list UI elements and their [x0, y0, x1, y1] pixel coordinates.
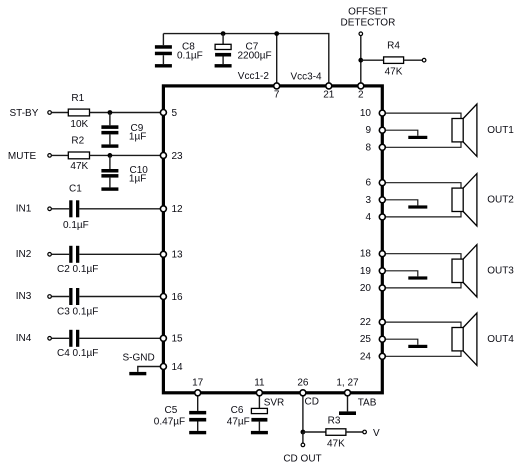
speaker OUT2 [452, 174, 477, 226]
svg-text:R2: R2 [71, 135, 84, 146]
svg-text:R3: R3 [328, 415, 341, 426]
svg-text:DETECTOR: DETECTOR [340, 17, 395, 28]
svg-text:OUT2: OUT2 [487, 195, 514, 206]
capacitor C4 [57, 330, 98, 359]
capacitor C7 [215, 34, 231, 65]
svg-text:24: 24 [360, 351, 372, 362]
capacitor C8 [155, 34, 172, 65]
pin 10 [360, 108, 385, 119]
svg-text:MUTE: MUTE [8, 151, 37, 162]
node IN1 input [16, 203, 52, 214]
wire OUT2 center pin to ground [385, 200, 417, 206]
wire C2 to pin [79, 253, 160, 255]
wire top supply bus [163, 34, 328, 85]
pin 6 [365, 178, 385, 189]
wire offset detector to pin 2 [360, 36, 362, 84]
wire pin to OUT3 speaker - [385, 283, 461, 288]
pin 21 [323, 83, 335, 101]
svg-text:11: 11 [254, 378, 265, 389]
pin 18 [360, 249, 385, 260]
svg-text:2: 2 [358, 90, 364, 101]
ground under C9 [101, 144, 118, 147]
svg-text:1µF: 1µF [129, 174, 146, 185]
node junction C9 [108, 110, 113, 115]
svg-text:22: 22 [360, 317, 372, 328]
pin 9 [365, 125, 385, 136]
svg-text:2200µF: 2200µF [238, 51, 272, 62]
svg-text:4: 4 [365, 212, 371, 223]
node OFFSET DETECTOR terminal [340, 6, 395, 35]
capacitor C2 [57, 246, 98, 275]
svg-text:TAB: TAB [358, 397, 377, 408]
label C7 value [238, 42, 272, 62]
pin 26 [297, 378, 309, 396]
pin 11 [254, 378, 265, 396]
svg-text:IN1: IN1 [16, 203, 32, 214]
svg-text:47µF: 47µF [227, 416, 250, 427]
node junction C10 [108, 153, 113, 158]
ground TAB [339, 411, 356, 415]
node V terminal [363, 428, 380, 439]
resistor R4 [361, 40, 422, 77]
pin 14 [160, 362, 183, 373]
svg-text:6: 6 [365, 178, 371, 189]
wire pin 1,27 to ground [347, 394, 349, 411]
wire IN1 to C1 [52, 208, 70, 210]
wire MUTE to R2 [52, 154, 69, 156]
ground under C5 [189, 431, 206, 434]
svg-text:8: 8 [365, 142, 371, 153]
pin 25 [360, 334, 385, 345]
wire C4 to pin [79, 337, 160, 339]
ground OUT3 [408, 276, 427, 279]
svg-text:OFFSET: OFFSET [348, 6, 387, 17]
svg-text:0.47µF: 0.47µF [154, 416, 185, 427]
svg-text:R1: R1 [71, 93, 84, 104]
svg-text:IN3: IN3 [16, 291, 32, 302]
wire pin to OUT4 speaker + [385, 322, 461, 327]
wire OUT3 center pin to ground [385, 271, 417, 277]
svg-text:CD: CD [305, 397, 319, 408]
pin 17 [192, 378, 204, 396]
svg-text:C1: C1 [69, 183, 82, 194]
svg-text:47K: 47K [70, 161, 88, 172]
svg-text:23: 23 [172, 151, 184, 162]
svg-text:10K: 10K [70, 119, 88, 130]
svg-text:C2 0.1µF: C2 0.1µF [57, 264, 98, 275]
svg-text:13: 13 [172, 250, 184, 261]
svg-text:47K: 47K [327, 439, 345, 450]
wire C3 to pin [79, 296, 160, 298]
svg-text:0.1µF: 0.1µF [63, 220, 89, 231]
node MUTE input [8, 151, 51, 162]
svg-text:17: 17 [192, 378, 204, 389]
svg-text:5: 5 [172, 108, 178, 119]
ground OUT2 [408, 205, 427, 208]
capacitor C3 [57, 288, 98, 317]
ground under C10 [101, 187, 118, 190]
resistor R2 [68, 135, 89, 172]
wire pin to OUT2 speaker - [385, 212, 461, 217]
svg-text:Vcc1-2: Vcc1-2 [238, 71, 270, 82]
svg-text:15: 15 [172, 334, 184, 345]
wire junction to CD OUT terminal [302, 432, 304, 443]
svg-text:S-GND: S-GND [123, 352, 155, 363]
pin 19 [360, 266, 385, 277]
svg-text:Vcc3-4: Vcc3-4 [291, 71, 323, 82]
wire IN2 to C2 [52, 253, 70, 255]
node junction above pin 7 [274, 31, 279, 36]
node IN3 input [16, 291, 52, 302]
node junction above C7 [221, 31, 226, 36]
capacitor C9 [101, 113, 146, 145]
pin 24 [360, 351, 385, 362]
svg-text:CD OUT: CD OUT [283, 454, 321, 465]
wire R1 to pin 5 [90, 112, 161, 114]
svg-text:IN4: IN4 [16, 333, 32, 344]
pin 22 [360, 317, 385, 328]
svg-text:IN2: IN2 [16, 249, 32, 260]
ground under C7 [215, 64, 232, 67]
node CD OUT terminal [283, 443, 321, 464]
svg-text:7: 7 [274, 90, 280, 101]
svg-text:18: 18 [360, 249, 372, 260]
ground OUT4 [408, 345, 427, 348]
svg-text:OUT3: OUT3 [487, 266, 514, 277]
svg-text:25: 25 [360, 334, 372, 345]
pin 7 [274, 83, 280, 101]
pin 16 [160, 292, 183, 303]
wire pin to OUT1 speaker + [385, 113, 461, 118]
pin 1, 27 [336, 378, 359, 396]
node IN2 input [16, 249, 52, 260]
IC body U1 [163, 86, 382, 393]
svg-text:12: 12 [172, 204, 184, 215]
svg-text:R4: R4 [387, 40, 400, 51]
node junction CD OUT [301, 430, 306, 435]
pin 15 [160, 334, 183, 345]
node R4 output terminal [422, 58, 426, 62]
svg-text:26: 26 [297, 378, 309, 389]
wire ST-BY to R1 [52, 112, 69, 114]
pin 20 [360, 283, 385, 294]
svg-text:OUT4: OUT4 [487, 334, 514, 345]
pin 3 [365, 195, 385, 206]
label C8 value [177, 42, 203, 62]
capacitor C1 [63, 183, 89, 231]
wire pin to OUT4 speaker - [385, 351, 461, 356]
speaker OUT1 [452, 104, 477, 156]
svg-text:1, 27: 1, 27 [336, 378, 359, 389]
pin 4 [365, 212, 385, 223]
svg-text:14: 14 [172, 362, 184, 373]
node junction R4 [358, 58, 363, 63]
svg-text:1µF: 1µF [129, 132, 146, 143]
svg-text:C5: C5 [165, 405, 178, 416]
svg-text:V: V [373, 428, 380, 439]
wire pin 26 down [302, 394, 304, 432]
svg-text:C6: C6 [231, 405, 244, 416]
wire OUT4 center pin to ground [385, 339, 417, 345]
svg-text:21: 21 [323, 90, 335, 101]
svg-text:SVR: SVR [264, 397, 285, 408]
ground S-GND [129, 372, 146, 375]
svg-text:47K: 47K [385, 66, 403, 77]
resistor R1 [68, 93, 89, 130]
capacitor C10 [101, 155, 148, 187]
wire R2 to pin 23 [90, 154, 161, 156]
svg-text:0.1µF: 0.1µF [177, 51, 203, 62]
speaker OUT3 [452, 245, 477, 297]
wire pin to OUT2 speaker + [385, 183, 461, 188]
wire IN3 to C3 [52, 296, 70, 298]
wire pin to OUT3 speaker + [385, 254, 461, 259]
node IN4 input [16, 333, 52, 344]
svg-text:C4 0.1µF: C4 0.1µF [57, 348, 98, 359]
svg-text:10: 10 [360, 108, 372, 119]
svg-text:19: 19 [360, 266, 372, 277]
speaker OUT4 [452, 313, 477, 365]
svg-text:OUT1: OUT1 [487, 125, 514, 136]
pin 8 [365, 142, 385, 153]
capacitor C5 [154, 394, 206, 431]
node ST-BY input [10, 108, 52, 119]
pin 2 [358, 83, 364, 101]
ground OUT1 [408, 136, 427, 139]
pin 13 [160, 250, 183, 261]
wire IN4 to C4 [52, 337, 70, 339]
ground under C6 [251, 431, 268, 434]
wire pin to OUT1 speaker - [385, 142, 461, 147]
svg-text:ST-BY: ST-BY [10, 108, 39, 119]
wire OUT1 center pin to ground [385, 130, 417, 136]
pin 5 [160, 108, 177, 119]
wire pin 14 to S-GND [138, 367, 161, 372]
svg-text:C3 0.1µF: C3 0.1µF [57, 306, 98, 317]
svg-text:20: 20 [360, 283, 372, 294]
pin 23 [160, 151, 183, 162]
ground under C8 [155, 64, 172, 67]
wire C1 to pin [79, 208, 160, 210]
capacitor C6 electrolytic [227, 394, 268, 431]
svg-text:9: 9 [365, 125, 371, 136]
svg-text:16: 16 [172, 292, 184, 303]
svg-text:3: 3 [365, 195, 371, 206]
pin 12 [160, 204, 183, 215]
resistor R3 [303, 415, 363, 449]
wire riser to pin 7 [276, 34, 278, 85]
